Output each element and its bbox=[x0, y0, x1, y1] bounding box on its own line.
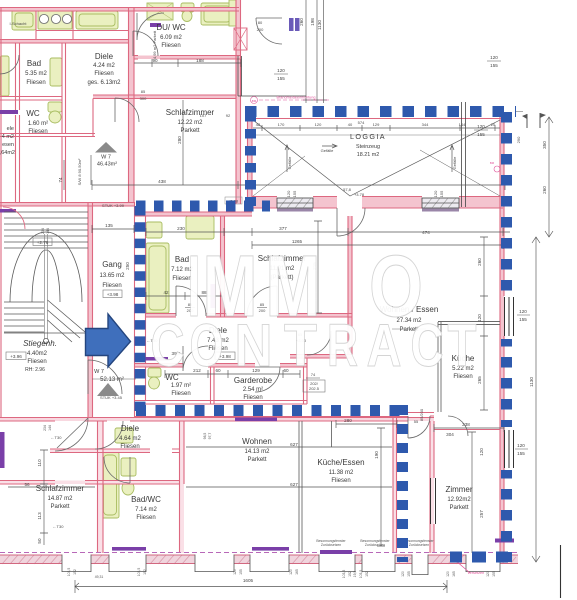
svg-text:57,8: 57,8 bbox=[343, 187, 352, 192]
Diele to Wohnen door bbox=[307, 331, 331, 355]
svg-text:155: 155 bbox=[407, 571, 411, 577]
kueche 5.22 partition bbox=[438, 322, 500, 413]
watermark CONTRACT bbox=[151, 312, 477, 379]
svg-text:Fliesen: Fliesen bbox=[26, 80, 45, 86]
boundary bottom run bbox=[136, 405, 403, 416]
svg-text:120: 120 bbox=[286, 190, 291, 197]
svg-text:4.24 m2: 4.24 m2 bbox=[93, 63, 115, 69]
svg-text:230: 230 bbox=[177, 226, 185, 231]
svg-text:Fliesen: Fliesen bbox=[120, 444, 139, 450]
svg-text:T: T bbox=[284, 312, 317, 379]
gang pink entry arc bbox=[3, 207, 25, 229]
washbasin Bad mid bbox=[186, 216, 214, 239]
lower Diele right door bbox=[95, 421, 123, 449]
wc garderobe bottom wall bbox=[134, 401, 307, 405]
svg-text:4,99 m2 Parkett: 4,99 m2 Parkett bbox=[152, 30, 157, 59]
svg-text:260: 260 bbox=[477, 258, 482, 266]
svg-text:103,5: 103,5 bbox=[342, 570, 346, 579]
kueche left wall lower apt bbox=[393, 416, 397, 553]
svg-text:19,5: 19,5 bbox=[353, 571, 357, 578]
Kueche lower door bbox=[408, 416, 430, 438]
svg-text:esen: esen bbox=[2, 142, 14, 148]
wall band DU/WC bottom bbox=[134, 56, 241, 60]
svg-text:1.97 m²: 1.97 m² bbox=[171, 383, 191, 389]
svg-text:Stiegenh.: Stiegenh. bbox=[23, 339, 57, 348]
top exterior wall bbox=[0, 8, 239, 12]
svg-text:1605: 1605 bbox=[243, 578, 254, 583]
svg-text:STUK +3.99: STUK +3.99 bbox=[102, 203, 125, 208]
svg-text:144: 144 bbox=[48, 425, 52, 431]
boundary mid column bbox=[397, 405, 408, 562]
svg-text:250: 250 bbox=[125, 262, 130, 270]
boundary loggia top bbox=[245, 106, 516, 117]
svg-text:135: 135 bbox=[105, 223, 113, 228]
svg-text:120: 120 bbox=[401, 571, 405, 577]
wall band bad right bbox=[221, 216, 225, 317]
svg-text:155: 155 bbox=[519, 317, 527, 322]
svg-text:103,5: 103,5 bbox=[359, 570, 363, 579]
svg-text:Zurücksetzen: Zurücksetzen bbox=[365, 543, 385, 547]
svg-text:1130: 1130 bbox=[529, 377, 534, 387]
washbasin counter top-left bbox=[38, 11, 72, 29]
svg-text:155: 155 bbox=[439, 190, 444, 197]
svg-text:11.38 m2: 11.38 m2 bbox=[329, 470, 354, 476]
zimmer top wall bbox=[434, 429, 500, 431]
bottom boundary wall other apt bbox=[134, 416, 408, 418]
DU/WC bottom wall bbox=[134, 56, 241, 60]
svg-text:155: 155 bbox=[292, 190, 297, 197]
svg-text:80: 80 bbox=[258, 20, 263, 25]
svg-text:Brandmeldeeinrichtung: Brandmeldeeinrichtung bbox=[276, 96, 315, 100]
svg-text:Parkett: Parkett bbox=[50, 504, 69, 510]
loggia right wall bbox=[500, 117, 504, 208]
svg-text:42: 42 bbox=[256, 122, 261, 127]
svg-text:202.5: 202.5 bbox=[309, 386, 320, 391]
svg-text:129: 129 bbox=[373, 122, 380, 127]
loggia bottom wall bbox=[252, 197, 503, 209]
svg-text:120: 120 bbox=[315, 122, 322, 127]
svg-text:T: T bbox=[448, 312, 477, 379]
svg-text:144: 144 bbox=[459, 122, 466, 127]
svg-text:55: 55 bbox=[414, 419, 419, 424]
svg-text:Fliesen: Fliesen bbox=[28, 129, 47, 135]
watermark IMMO bbox=[188, 238, 424, 335]
svg-text:120: 120 bbox=[433, 190, 438, 197]
loggia windows hatched bbox=[277, 198, 459, 212]
gefaelle arrows bbox=[285, 145, 289, 172]
svg-text:ges. 6.13m2: ges. 6.13m2 bbox=[87, 80, 121, 86]
left rooms divider vertical bbox=[129, 8, 135, 202]
svg-text:Wohnen: Wohnen bbox=[242, 437, 272, 446]
apartment left wall under dashes bbox=[135, 202, 146, 417]
svg-text:155: 155 bbox=[277, 76, 285, 81]
svg-text:574: 574 bbox=[358, 120, 365, 125]
svg-text:←T30: ←T30 bbox=[51, 435, 63, 440]
svg-text:50: 50 bbox=[37, 538, 42, 544]
svg-text:120: 120 bbox=[477, 314, 482, 322]
lower apt wall y450 bbox=[50, 449, 180, 453]
svg-text:260: 260 bbox=[542, 186, 547, 194]
svg-text:438: 438 bbox=[158, 179, 166, 184]
svg-text:190: 190 bbox=[374, 451, 379, 459]
Schlafzimmer top door bbox=[115, 98, 139, 122]
svg-text:BM: BM bbox=[490, 161, 495, 165]
svg-text:474: 474 bbox=[422, 230, 430, 235]
wall x237 top bbox=[236, 0, 241, 204]
svg-text:RH: 2.96: RH: 2.96 bbox=[25, 367, 45, 373]
svg-text:1130: 1130 bbox=[317, 20, 322, 30]
wall band lower verticals bbox=[98, 421, 104, 553]
svg-text:280: 280 bbox=[177, 136, 182, 144]
left block divider y40 bbox=[0, 40, 129, 44]
svg-text:234: 234 bbox=[43, 425, 47, 431]
bathtub Bad/WC bottom bbox=[101, 452, 119, 518]
DU/WC right door bbox=[256, 18, 282, 44]
svg-text:ele: ele bbox=[7, 126, 14, 132]
top-left entry door bbox=[137, 13, 164, 40]
blue arrow marker bbox=[86, 314, 131, 367]
svg-text:Schlafzimmer: Schlafzimmer bbox=[166, 108, 215, 117]
stiegenhaus top wall bbox=[0, 203, 134, 207]
boundary loggia left bbox=[245, 112, 256, 206]
svg-text:+3.98: +3.98 bbox=[107, 292, 119, 297]
svg-text:6.09 m2: 6.09 m2 bbox=[160, 35, 182, 41]
svg-text:Fliesen: Fliesen bbox=[243, 395, 262, 401]
Zimmer door bbox=[448, 416, 468, 436]
svg-text:4 m2: 4 m2 bbox=[2, 134, 14, 140]
green corner top right bbox=[229, 0, 238, 26]
svg-text:155: 155 bbox=[517, 451, 525, 456]
svg-text:165: 165 bbox=[295, 569, 299, 575]
svg-text:Küche/Essen: Küche/Essen bbox=[317, 458, 364, 467]
svg-text:I-Schacht: I-Schacht bbox=[10, 21, 28, 26]
svg-text:1.60 m²: 1.60 m² bbox=[28, 121, 48, 127]
bad+schlafzimmer bottom wall bbox=[146, 314, 352, 318]
svg-text:O: O bbox=[190, 312, 224, 379]
svg-text:Fliesen: Fliesen bbox=[94, 71, 113, 77]
schlafzimmer right wall bbox=[348, 216, 352, 355]
wall band x128 bbox=[129, 8, 135, 202]
basin+wc Bad/WC bottom bbox=[121, 458, 136, 476]
Garderobe door bbox=[255, 367, 280, 392]
lower apt wall x100 bbox=[98, 421, 104, 553]
WATERMARK_LAYER bbox=[151, 238, 477, 379]
svg-text:107: 107 bbox=[200, 113, 207, 118]
svg-text:155: 155 bbox=[239, 569, 243, 575]
svg-text:Gefälle: Gefälle bbox=[287, 156, 292, 169]
wall band schlafzimmer right bbox=[348, 216, 352, 355]
svg-text:290: 290 bbox=[516, 136, 521, 143]
loggia left wall bbox=[248, 117, 253, 208]
svg-text:120: 120 bbox=[486, 571, 490, 577]
gang left wall bbox=[88, 202, 93, 417]
svg-text:WC: WC bbox=[26, 109, 40, 118]
left block divider y133 bbox=[0, 134, 62, 137]
wall band right bbox=[500, 208, 504, 553]
top dims bbox=[303, 0, 327, 103]
svg-text:85/200: 85/200 bbox=[419, 408, 424, 421]
W7 jog wall bbox=[60, 99, 95, 137]
zimmer left wall bbox=[430, 421, 434, 553]
svg-text:LOGGIA: LOGGIA bbox=[350, 132, 386, 141]
toilet WC 1.60 bbox=[48, 102, 62, 112]
svg-text:103,5: 103,5 bbox=[67, 568, 71, 577]
svg-text:Gefälle: Gefälle bbox=[452, 156, 457, 169]
svg-text:Parkett: Parkett bbox=[247, 457, 266, 463]
shower DU/WC bbox=[147, 3, 173, 20]
svg-text:STUK +3.45: STUK +3.45 bbox=[100, 395, 123, 400]
window bar right wall bbox=[505, 297, 514, 336]
svg-text:Bad/WC: Bad/WC bbox=[131, 495, 161, 504]
svg-text:W 7: W 7 bbox=[101, 155, 111, 161]
pink annotations bbox=[251, 96, 547, 576]
svg-text:4.40m2: 4.40m2 bbox=[27, 351, 48, 357]
svg-text:97,7: 97,7 bbox=[208, 433, 212, 440]
cut tub left edge bbox=[0, 56, 9, 96]
bathtub top-left 2 bbox=[76, 11, 118, 29]
toilet WC 1.97 bbox=[148, 368, 161, 377]
bottom exterior wall band bbox=[0, 357, 518, 575]
svg-text:165: 165 bbox=[452, 571, 456, 577]
svg-text:C: C bbox=[411, 312, 444, 379]
toilet Bad mid small bbox=[146, 222, 162, 238]
WC door bbox=[183, 346, 208, 371]
svg-text:120: 120 bbox=[446, 571, 450, 577]
wohnen jog wall bbox=[290, 355, 352, 359]
shaft box pink X bbox=[234, 28, 247, 50]
purple sills bbox=[112, 357, 514, 554]
window lines x462 bbox=[462, 102, 466, 207]
bathtub Bad mid bbox=[146, 243, 169, 313]
svg-text:Bad: Bad bbox=[27, 59, 41, 68]
svg-text:265: 265 bbox=[477, 376, 482, 384]
svg-text:Schlafzimmer: Schlafzimmer bbox=[36, 484, 85, 493]
svg-text:257: 257 bbox=[479, 510, 484, 518]
svg-text:2.54 m²: 2.54 m² bbox=[243, 387, 263, 393]
purple elements bbox=[0, 18, 300, 468]
svg-text:S/W 8 90.50m²: S/W 8 90.50m² bbox=[77, 158, 82, 185]
svg-text:120: 120 bbox=[233, 569, 237, 575]
svg-text:238: 238 bbox=[462, 422, 470, 427]
boundary apartment top run bbox=[136, 201, 270, 212]
svg-text:1,64m2: 1,64m2 bbox=[0, 150, 15, 156]
svg-text:Gang: Gang bbox=[102, 260, 122, 269]
svg-text:152: 152 bbox=[143, 569, 147, 575]
svg-text:46.43m²: 46.43m² bbox=[97, 162, 117, 168]
svg-text:versetzen: versetzen bbox=[468, 571, 484, 575]
wc garderobe divider bbox=[211, 367, 215, 404]
door arcs bbox=[3, 13, 468, 483]
Loggia door bbox=[337, 208, 365, 236]
wall band stair top bbox=[0, 203, 134, 207]
svg-text:Zurücksetzen: Zurücksetzen bbox=[321, 543, 341, 547]
wall band rooms bottom bbox=[146, 314, 176, 318]
boundary right column bbox=[501, 112, 512, 293]
svg-text:74: 74 bbox=[58, 177, 63, 183]
svg-text:←T30: ←T30 bbox=[53, 524, 65, 529]
svg-text:627: 627 bbox=[290, 482, 298, 487]
svg-text:Diele: Diele bbox=[121, 424, 140, 433]
svg-text:300: 300 bbox=[140, 96, 147, 101]
svg-text:Steinzeug: Steinzeug bbox=[356, 144, 380, 150]
svg-text:+3.96: +3.96 bbox=[10, 354, 22, 359]
svg-text:Zurücksetzen: Zurücksetzen bbox=[409, 543, 429, 547]
svg-text:DU/ WC: DU/ WC bbox=[156, 23, 186, 32]
svg-text:R: R bbox=[327, 312, 358, 379]
purple dashed sill line bbox=[0, 552, 518, 554]
svg-text:Fliesen: Fliesen bbox=[171, 391, 190, 397]
svg-text:Diele: Diele bbox=[95, 52, 114, 61]
loggia top wall bbox=[248, 118, 505, 120]
svg-text:42: 42 bbox=[163, 290, 169, 295]
svg-text:20: 20 bbox=[491, 122, 496, 127]
Bad door bbox=[176, 286, 206, 316]
svg-text:Fliesen: Fliesen bbox=[27, 359, 46, 365]
svg-text:A: A bbox=[367, 312, 402, 379]
sink circles bbox=[39, 14, 48, 23]
svg-text:98,5: 98,5 bbox=[203, 433, 207, 440]
stiegenhaus bottom wall bbox=[0, 418, 434, 422]
svg-text:110: 110 bbox=[37, 459, 42, 467]
svg-text:7.14 m2: 7.14 m2 bbox=[135, 507, 157, 513]
left edge wall upper bbox=[1, 8, 20, 203]
boundary left column bbox=[135, 206, 146, 411]
wall band apartment top bbox=[134, 212, 252, 216]
svg-text:198: 198 bbox=[310, 18, 315, 26]
svg-text:85: 85 bbox=[260, 302, 265, 307]
svg-text:Zimmer: Zimmer bbox=[445, 485, 472, 494]
wall band lower horizontals bbox=[50, 449, 150, 453]
basin Diele 4.64 bbox=[115, 428, 133, 443]
svg-text:49,31: 49,31 bbox=[95, 575, 104, 579]
svg-text:120: 120 bbox=[490, 55, 498, 60]
svg-text:152: 152 bbox=[348, 571, 352, 577]
svg-text:18.21 m2: 18.21 m2 bbox=[357, 152, 379, 158]
right side black dims bbox=[532, 237, 540, 562]
svg-text:103,5: 103,5 bbox=[137, 568, 141, 577]
svg-text:234: 234 bbox=[41, 228, 45, 234]
loggia interior bbox=[253, 120, 500, 196]
lower apt wall y482 bbox=[0, 481, 180, 485]
svg-text:N: N bbox=[235, 312, 273, 379]
svg-text:4.64 m2: 4.64 m2 bbox=[119, 436, 141, 442]
W7 triangle bbox=[95, 142, 117, 153]
toilet DU/WC bbox=[181, 3, 194, 12]
bad right wall bbox=[221, 216, 225, 317]
Schlafzimmer main door bbox=[247, 286, 277, 316]
svg-text:377: 377 bbox=[279, 226, 287, 231]
lower apt wall x182 bbox=[180, 421, 185, 553]
svg-text:92: 92 bbox=[226, 113, 231, 118]
svg-text:170: 170 bbox=[278, 122, 285, 127]
svg-text:120: 120 bbox=[517, 443, 525, 448]
svg-text:14.87 m2: 14.87 m2 bbox=[47, 496, 73, 502]
top Schlafzimmer top wall bbox=[93, 95, 236, 99]
svg-text:13.65 m2: 13.65 m2 bbox=[99, 273, 125, 279]
apartment top wall left part bbox=[134, 212, 252, 216]
tub DU/WC bbox=[201, 3, 233, 25]
wall band gang left bbox=[88, 202, 93, 417]
svg-text:120: 120 bbox=[277, 68, 285, 73]
Bad/WC door bbox=[104, 457, 130, 483]
wall band y95 bbox=[93, 95, 236, 99]
wall band top bbox=[0, 8, 239, 12]
wall band loggia bottom bbox=[252, 197, 277, 209]
left block divider y97 bbox=[0, 97, 62, 101]
svg-text:+2.76: +2.76 bbox=[37, 240, 49, 245]
line y96 top bbox=[238, 95, 306, 97]
svg-text:260: 260 bbox=[299, 18, 304, 26]
svg-text:120: 120 bbox=[479, 448, 484, 456]
window lines x239 upper bbox=[238, 56, 242, 96]
apartment right wall bbox=[500, 208, 504, 553]
svg-text:40: 40 bbox=[348, 122, 353, 127]
svg-text:W 7: W 7 bbox=[94, 369, 104, 375]
svg-text:14.13 m2: 14.13 m2 bbox=[244, 449, 270, 455]
svg-text:Fliesen: Fliesen bbox=[136, 515, 155, 521]
kueche/essen partition lower bbox=[299, 421, 332, 553]
svg-text:BM: BM bbox=[252, 99, 257, 103]
svg-text:152: 152 bbox=[73, 569, 77, 575]
boundary bottom right run bbox=[450, 552, 508, 563]
svg-text:Fliesen: Fliesen bbox=[161, 43, 180, 49]
svg-text:304: 304 bbox=[446, 432, 454, 437]
svg-text:+3.78: +3.78 bbox=[354, 192, 365, 197]
zimmer entry wall bbox=[408, 413, 434, 417]
svg-text:155: 155 bbox=[492, 571, 496, 577]
svg-text:Fliesen: Fliesen bbox=[102, 283, 121, 289]
svg-text:280: 280 bbox=[344, 418, 352, 423]
left block divider x65 bbox=[62, 43, 66, 203]
svg-text:12.22 m2: 12.22 m2 bbox=[177, 120, 203, 126]
basin Bad 5.35 bbox=[50, 58, 62, 86]
svg-text:C: C bbox=[151, 312, 185, 379]
svg-text:56: 56 bbox=[24, 482, 30, 487]
svg-text:155: 155 bbox=[490, 63, 498, 68]
svg-text:Fliesen: Fliesen bbox=[331, 478, 350, 484]
svg-text:155: 155 bbox=[477, 132, 485, 137]
wall band x237 bbox=[236, 0, 241, 204]
svg-text:344: 344 bbox=[422, 122, 429, 127]
svg-text:Gefälle: Gefälle bbox=[321, 148, 334, 153]
diele bottom wall bbox=[134, 364, 307, 368]
staircase bbox=[4, 212, 88, 344]
wall band y40 bbox=[0, 40, 129, 44]
svg-text:52.13 m²: 52.13 m² bbox=[100, 377, 124, 383]
bathtub top-left 1 bbox=[12, 10, 36, 30]
svg-text:120: 120 bbox=[477, 124, 485, 129]
svg-text:350: 350 bbox=[542, 141, 547, 149]
svg-text:Parkett: Parkett bbox=[180, 128, 199, 134]
wall band loggia right bbox=[500, 117, 504, 208]
stiegenhaus left wall bbox=[0, 203, 2, 417]
svg-text:144: 144 bbox=[46, 228, 50, 234]
DU/WC door bbox=[133, 31, 158, 56]
lower apt entry double door bbox=[55, 418, 88, 451]
garderobe right wall bbox=[304, 358, 308, 404]
svg-text:627: 627 bbox=[290, 442, 298, 447]
svg-text:12.92m2: 12.92m2 bbox=[447, 497, 471, 503]
svg-text:188: 188 bbox=[196, 58, 204, 63]
wall band y417 bbox=[0, 418, 434, 422]
svg-text:5.35 m2: 5.35 m2 bbox=[25, 71, 47, 77]
svg-text:85: 85 bbox=[141, 89, 146, 94]
top bath inner divider bbox=[36, 11, 128, 39]
bottom main dim bbox=[75, 583, 447, 590]
wall band loggia left bbox=[248, 117, 253, 208]
window bar zimmer wall bbox=[431, 478, 436, 524]
svg-text:152: 152 bbox=[365, 571, 369, 577]
